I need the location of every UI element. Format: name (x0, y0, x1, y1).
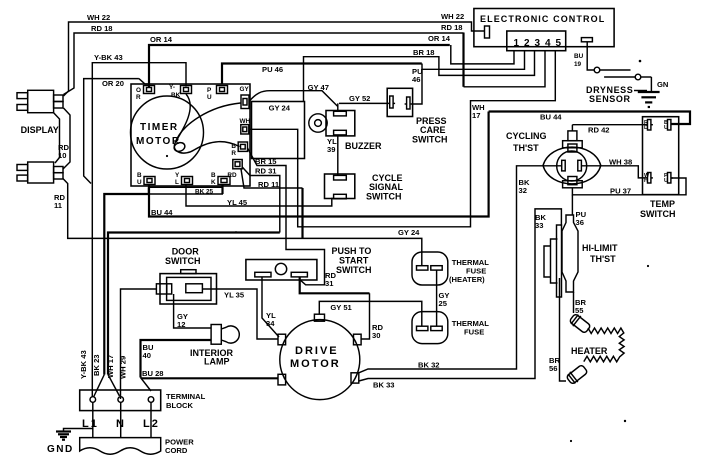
svg-text:PU 37: PU 37 (610, 187, 631, 196)
svg-text:OR 20: OR 20 (102, 79, 124, 88)
svg-text:PU: PU (664, 173, 668, 184)
interior lamp (211, 325, 239, 345)
svg-text:BU: BU (137, 172, 142, 186)
hi-limit thermostat (544, 215, 578, 297)
svg-text:TIMER: TIMER (140, 122, 179, 133)
wire WH-38 (581, 166, 647, 178)
wire GY-12 (174, 294, 212, 328)
wire RD-42 (572, 124, 647, 126)
wire YL-45 (186, 185, 334, 207)
svg-text:BR: BR (231, 143, 236, 157)
svg-text:GY: GY (240, 86, 250, 93)
svg-text:GN: GN (657, 80, 668, 89)
wire PU-37 (572, 178, 686, 195)
svg-text:SIGNAL: SIGNAL (369, 182, 404, 192)
pin BR (231, 142, 247, 157)
EC bottom pad (581, 38, 592, 42)
svg-text:WH 17: WH 17 (106, 355, 115, 378)
svg-text:PUSH TO: PUSH TO (332, 246, 372, 256)
terminal L1 (90, 397, 96, 403)
power cord box (80, 438, 161, 455)
svg-text:PU 46: PU 46 (262, 65, 283, 74)
temp switch pin PU (664, 173, 673, 185)
wire PU-36 (571, 195, 573, 215)
svg-text:OR 14: OR 14 (428, 34, 451, 43)
wire RD-10 link (63, 108, 70, 169)
timer cam curve 1 (174, 103, 240, 153)
wire OR-14 (149, 45, 514, 87)
wire GY-25 (436, 270, 438, 326)
wire BU-44 top run (489, 112, 690, 125)
svg-text:BK 25: BK 25 (195, 189, 214, 196)
timer cam loop (173, 141, 186, 153)
svg-text:FUSE: FUSE (464, 328, 484, 337)
svg-text:YL 45: YL 45 (227, 198, 248, 207)
svg-text:BR 18: BR 18 (413, 48, 435, 57)
wire BR-56 (560, 278, 567, 381)
svg-text:GY 24: GY 24 (398, 228, 420, 237)
dryness underline (634, 90, 647, 92)
svg-text:DISPLAY: DISPLAY (21, 125, 59, 135)
EC 12345 box (507, 31, 566, 51)
svg-text:BK 33: BK 33 (373, 381, 395, 390)
terminal N (118, 397, 124, 403)
svg-text:GND: GND (47, 444, 74, 455)
wire buzzer stub GY52 junction (337, 103, 339, 111)
temp switch pin RD (644, 120, 653, 132)
svg-text:RD 18: RD 18 (441, 23, 463, 32)
cycle signal switch (325, 174, 355, 199)
timer motor circle (131, 96, 204, 169)
pin BU (137, 172, 155, 186)
wire RD-31 chain to terminal block (108, 167, 280, 396)
wire RD-18 (64, 33, 546, 95)
svg-text:CARE: CARE (420, 125, 446, 135)
heater zigzag (584, 328, 624, 362)
wire L2 drop (150, 402, 152, 437)
wire GN drop (650, 77, 652, 92)
svg-text:WH 22: WH 22 (441, 12, 464, 21)
svg-text:CYCLING: CYCLING (506, 131, 547, 141)
timer box (131, 84, 250, 186)
svg-text:HEATER: HEATER (571, 346, 608, 356)
svg-text:SWITCH: SWITCH (412, 135, 448, 145)
wire BK-23 (104, 194, 148, 375)
svg-text:BU 44: BU 44 (151, 208, 173, 217)
svg-text:GY 51: GY 51 (330, 303, 352, 312)
wire GY-47 (249, 91, 338, 107)
svg-text:WH 29: WH 29 (119, 356, 128, 379)
wire N drop (120, 402, 122, 437)
wire BU-19 (587, 42, 594, 70)
display bracket outline (54, 113, 60, 163)
pin RD (227, 160, 242, 180)
svg-text:BU 28: BU 28 (142, 369, 164, 378)
timer cam curve 2 (176, 94, 191, 142)
wire YL-34 (262, 277, 279, 337)
connector pin EC WH22 (485, 26, 490, 38)
wire WH-29 (121, 289, 157, 399)
svg-text:GY 24: GY 24 (269, 104, 291, 113)
wire WH-17 timer to EC pin5 (249, 51, 555, 227)
svg-text:WH 38: WH 38 (609, 158, 632, 167)
svg-text:MOTOR: MOTOR (290, 358, 341, 370)
svg-text:RD 31: RD 31 (255, 167, 277, 176)
temp switch pin WH (644, 173, 653, 185)
svg-text:BU 44: BU 44 (540, 113, 562, 122)
svg-text:OR 14: OR 14 (150, 35, 173, 44)
scan speckles (166, 60, 649, 442)
wire BR-55 stem (573, 292, 575, 313)
wire GY-52 (339, 102, 389, 104)
svg-text:L2: L2 (143, 418, 160, 430)
wire OR-20 (84, 79, 149, 184)
svg-text:RD 18: RD 18 (91, 24, 113, 33)
temp switch box (643, 117, 679, 195)
thermal fuse heater (412, 252, 448, 285)
svg-text:OR: OR (136, 87, 141, 101)
wire BK-25 label box (149, 185, 223, 195)
pin PU (207, 86, 228, 102)
dryness sensor contact 1 (594, 67, 630, 73)
svg-text:CORD: CORD (165, 446, 188, 455)
svg-text:BK 23: BK 23 (92, 354, 101, 376)
svg-text:RD 42: RD 42 (588, 126, 610, 135)
GY24 box (252, 102, 305, 159)
ground symbol dryness (638, 92, 660, 107)
wire BK-32 (359, 166, 562, 373)
svg-text:BK: BK (211, 172, 216, 186)
svg-text:Y-BK 43: Y-BK 43 (79, 350, 88, 379)
temp switch pin BU (664, 120, 673, 132)
pin GY (240, 86, 250, 109)
svg-text:TERMINAL: TERMINAL (166, 392, 206, 401)
connector BR-55 plug (568, 312, 592, 335)
svg-text:ELECTRONIC CONTROL: ELECTRONIC CONTROL (480, 14, 605, 24)
wire BK-25 pin drop (221, 185, 223, 195)
door switch (156, 270, 216, 304)
pin WH (240, 118, 251, 134)
svg-text:WH 22: WH 22 (87, 13, 110, 22)
connector display lower (17, 162, 63, 183)
connector display upper (17, 90, 63, 112)
pin YL (175, 172, 193, 186)
rotated wire labels (79, 350, 88, 379)
thermal fuse (412, 312, 448, 344)
svg-text:START: START (339, 256, 369, 266)
wire BK-33 (359, 209, 562, 381)
dryness sensor contact 2 (604, 74, 651, 80)
connector BR-56 plug (565, 363, 589, 386)
wire WH-22 (64, 22, 485, 96)
drive motor (278, 314, 361, 399)
electronic control box (474, 9, 614, 47)
pin Y-BK (169, 84, 192, 99)
svg-text:BR 15: BR 15 (255, 157, 277, 166)
svg-text:TEMP: TEMP (650, 199, 675, 209)
wire GND tap (64, 429, 93, 432)
terminal block box (80, 390, 161, 411)
wire RD-11 (63, 179, 422, 266)
push to start switch (246, 260, 317, 281)
pin BK (211, 172, 230, 186)
svg-text:GY 52: GY 52 (349, 94, 370, 103)
svg-text:TH'ST: TH'ST (590, 254, 616, 264)
wire PU-46 (222, 51, 525, 104)
press care switch (387, 88, 412, 116)
wire BU-40 (141, 340, 212, 378)
svg-text:RD: RD (644, 120, 648, 131)
svg-text:DRIVE: DRIVE (295, 345, 339, 357)
wire GY-51 (319, 301, 422, 326)
svg-text:BLOCK: BLOCK (166, 401, 194, 410)
svg-text:(HEATER): (HEATER) (449, 275, 485, 284)
svg-text:YL 35: YL 35 (224, 291, 245, 300)
svg-text:LAMP: LAMP (204, 357, 230, 367)
wire BU-28 (141, 378, 279, 392)
svg-text:PU: PU (207, 87, 212, 101)
svg-text:SWITCH: SWITCH (640, 209, 676, 219)
wire BR-15 chain to push-to-start (248, 148, 325, 285)
wire YL-35 (202, 289, 278, 339)
wire RD-30 (300, 277, 370, 339)
svg-text:DOOR: DOOR (172, 247, 200, 257)
svg-text:RD: RD (227, 172, 237, 179)
cycling thermostat (543, 125, 601, 188)
wire RD-11 branch (241, 169, 303, 238)
wire Y-BK-43 (92, 63, 186, 397)
svg-text:SENSOR: SENSOR (589, 94, 631, 104)
svg-text:RD 11: RD 11 (258, 180, 280, 189)
svg-text:HI-LIMIT: HI-LIMIT (582, 243, 618, 253)
svg-text:Y-BK 43: Y-BK 43 (94, 53, 123, 62)
wire YL-39 (337, 135, 339, 175)
svg-text:BK 32: BK 32 (418, 361, 440, 370)
terminal L2 (148, 397, 154, 403)
svg-text:TH'ST: TH'ST (513, 143, 539, 153)
svg-text:GY 47: GY 47 (308, 83, 329, 92)
svg-text:SWITCH: SWITCH (366, 192, 402, 202)
svg-text:BU: BU (664, 120, 668, 131)
wire L1 drop (92, 402, 94, 437)
svg-text:BUZZER: BUZZER (345, 141, 382, 151)
svg-text:SWITCH: SWITCH (336, 265, 372, 275)
buzzer (309, 111, 355, 136)
ground symbol main (56, 432, 71, 440)
svg-text:SWITCH: SWITCH (165, 256, 201, 266)
wire BU-44 left (149, 112, 489, 217)
svg-text:N: N (116, 418, 126, 430)
wire BR-18 (304, 51, 535, 102)
pin OR (136, 86, 155, 102)
